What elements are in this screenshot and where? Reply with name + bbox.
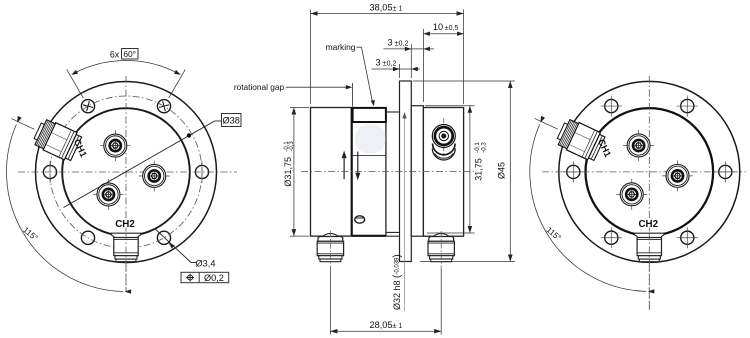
coax contact face — [139, 160, 170, 191]
centerline horizontal — [18, 171, 237, 173]
centerline vertical — [125, 76, 127, 292]
outer flange circle — [559, 81, 740, 262]
boxed label D38 — [222, 114, 242, 127]
svg-text:marking: marking — [326, 42, 356, 52]
centerline vertical — [648, 76, 650, 310]
label 6x 60 (boxed) — [110, 49, 138, 60]
CH1 SMA face on right block — [432, 118, 455, 160]
middle side view — [234, 3, 515, 335]
svg-text:1: 1 — [399, 323, 403, 330]
svg-text:Ø0,2: Ø0,2 — [204, 273, 224, 283]
CH2 label — [637, 219, 659, 228]
svg-text:10: 10 — [433, 22, 443, 32]
spigot boss — [411, 106, 423, 237]
svg-text:0,2: 0,2 — [399, 40, 409, 47]
leader line for D38 label — [64, 121, 222, 208]
bolt hole at 240 deg — [601, 227, 622, 248]
rotation arrow up (stator side) — [343, 157, 345, 180]
dim 28,05+-1 — [330, 268, 441, 335]
dim 3+-0,2 (lower) — [372, 58, 421, 79]
svg-text:Ø3,4: Ø3,4 — [196, 258, 216, 268]
svg-text:6x: 6x — [110, 50, 120, 60]
dim 10+-0,5 — [423, 22, 463, 102]
stator B body (right block) — [423, 108, 463, 237]
bolt hole at 120 deg — [601, 96, 622, 117]
marking sticker — [355, 124, 385, 153]
svg-text:3: 3 — [375, 58, 380, 68]
SMA connector under stator B — [428, 234, 454, 262]
coax contact face — [623, 130, 654, 161]
marking label + leader — [326, 42, 375, 106]
index screw (small ellipse) — [355, 216, 365, 223]
stator body (left block) — [311, 108, 352, 237]
CH2 label — [114, 219, 136, 228]
dim D32 h8 leader — [392, 112, 407, 311]
dim 38,05+-1 — [311, 3, 464, 105]
bearing neck — [386, 112, 400, 236]
svg-text:CH2: CH2 — [638, 219, 658, 230]
dimension arc 60deg — [73, 60, 179, 74]
dim 3+-0,2 (upper) — [384, 37, 435, 78]
inner rotor circle (D32) — [62, 108, 190, 236]
svg-text:Ø38: Ø38 — [223, 115, 240, 125]
svg-text:1: 1 — [399, 6, 403, 13]
bolt hole at 240 deg — [81, 231, 94, 244]
bolt hole at 300 deg — [677, 227, 698, 248]
inner rotor circle (bold) — [586, 108, 714, 236]
svg-text:60°: 60° — [123, 49, 136, 59]
position tolerance frame — [181, 272, 229, 283]
svg-text:31,75: 31,75 — [474, 158, 484, 181]
dim 31,75 (right of flange) — [425, 106, 488, 233]
rotation arrow down (rotor side) — [357, 152, 359, 174]
coax contact face — [662, 160, 693, 191]
svg-text:Ø45: Ø45 — [497, 162, 507, 179]
CH2 connector (side view at bottom) — [111, 233, 140, 262]
svg-text:38,05: 38,05 — [370, 3, 393, 13]
svg-text:rotational gap: rotational gap — [234, 82, 285, 92]
flange plate (D45) — [400, 81, 412, 262]
leader and label D3,4 — [155, 228, 216, 268]
bolt hole at 180 deg — [43, 161, 56, 183]
dimension 115deg (right view) — [530, 116, 655, 294]
svg-text:3: 3 — [387, 37, 392, 47]
bolt hole at 120 deg — [81, 100, 94, 113]
outer flange circle (D45) — [36, 82, 217, 263]
coax contact face — [93, 179, 124, 210]
dim D45 — [413, 81, 515, 262]
centerline over connector — [125, 233, 127, 292]
dim D31,75 (left) — [283, 108, 309, 237]
centerline over connector — [648, 233, 650, 310]
rotational gap label + leader — [234, 82, 353, 107]
bolt hole at 300 deg — [157, 231, 170, 244]
centerline horizontal — [542, 171, 746, 173]
svg-text:0,5: 0,5 — [449, 25, 459, 32]
svg-text:±: ± — [392, 4, 396, 13]
bolt hole at 0 deg — [195, 161, 208, 183]
bolt hole at 60 deg — [157, 100, 170, 113]
bolt hole at 180 deg — [563, 161, 584, 182]
left end view: flange face — [6, 49, 241, 294]
main axis centerline — [301, 171, 474, 173]
svg-text:0,2: 0,2 — [387, 61, 397, 68]
svg-text:CH2: CH2 — [115, 219, 135, 230]
svg-text:-0,3: -0,3 — [289, 141, 295, 152]
marking band (bold) — [353, 108, 386, 122]
svg-text:-0,3: -0,3 — [481, 142, 488, 153]
coax contact face — [616, 179, 647, 210]
svg-text:Ø31,75: Ø31,75 — [283, 157, 293, 187]
bolt hole at 0 deg — [715, 161, 736, 182]
right end view — [530, 76, 746, 310]
svg-text:28,05: 28,05 — [370, 320, 393, 330]
SMA connector under stator A — [317, 234, 343, 262]
CH1 connector (knurled, side view) — [31, 117, 82, 162]
dimension 6x 60deg: extension lines — [67, 60, 186, 97]
rotor body — [352, 108, 386, 236]
CH1 connector (knurled) — [555, 117, 606, 162]
svg-text:±: ± — [392, 321, 396, 330]
bolt circle (D38, dash-dot) — [50, 96, 202, 248]
bolt hole at 60 deg — [677, 96, 698, 117]
coax contact face — [100, 130, 131, 161]
CH2 connector bottom — [635, 233, 664, 262]
dimension 115deg (left view) — [6, 116, 131, 294]
